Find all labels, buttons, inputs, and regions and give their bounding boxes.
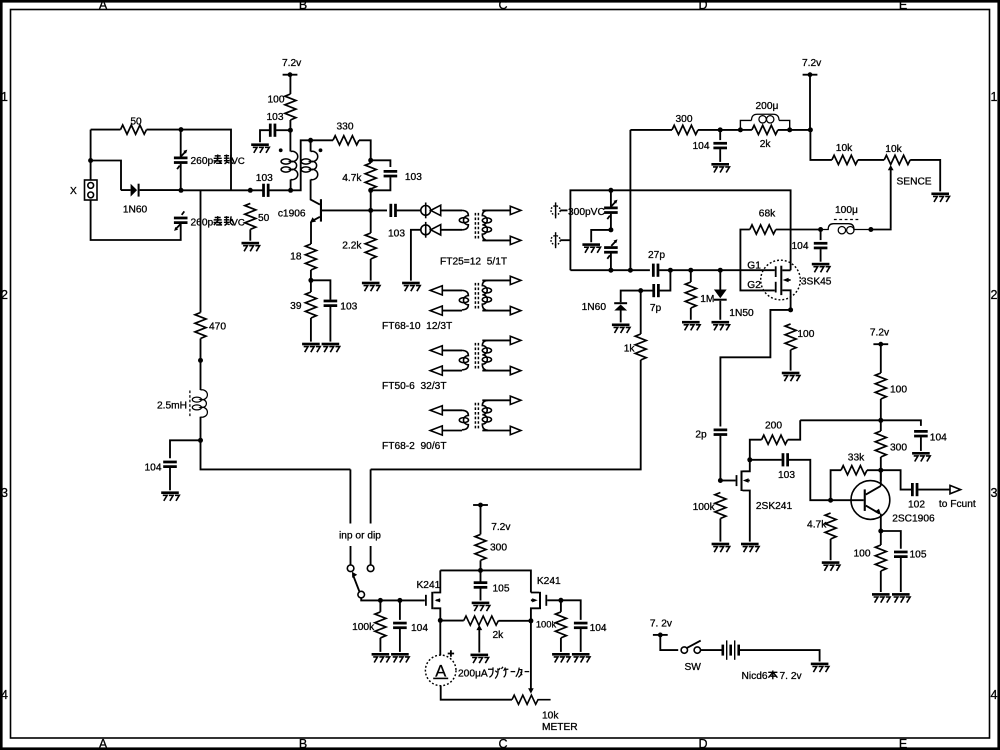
svg-text:3SK45: 3SK45 — [801, 276, 832, 287]
node rail-VC1 dot — [179, 127, 184, 132]
wire J2 to vertical — [560, 239, 570, 241]
wire battery to ground — [740, 650, 820, 661]
node dot above coil — [198, 358, 203, 363]
wire cap 103 to ground left — [260, 130, 269, 142]
wire 7p right up — [660, 270, 671, 290]
wire 7p node to diode — [621, 291, 641, 303]
wire R50 to ground — [249, 229, 251, 240]
output arrow T3 right bottom — [510, 366, 521, 374]
ground battery — [811, 663, 829, 673]
switch SW arm — [687, 641, 701, 648]
input arrow T3 top — [430, 346, 442, 355]
wire 103 em to ground — [329, 307, 331, 342]
ground under 103 emitter — [322, 343, 340, 353]
output arrow to Fcunt — [950, 485, 961, 493]
connector J1 input — [551, 202, 560, 218]
svg-text:104: 104 — [930, 433, 947, 444]
svg-text:E: E — [899, 737, 907, 750]
ground under 105 emitter — [892, 593, 910, 603]
svg-text:c1906: c1906 — [278, 209, 306, 220]
svg-text:100: 100 — [890, 385, 907, 396]
wire 104b to ground — [820, 249, 822, 262]
wire 105 to ground — [900, 558, 902, 592]
svg-text:300pVC: 300pVC — [568, 207, 605, 218]
wire source to 2p — [720, 310, 790, 427]
wire T4 right bottom lead — [482, 430, 510, 432]
ground under 39 — [302, 343, 320, 353]
node R50-2 tap dot — [248, 188, 253, 193]
wire T3 right bottom lead — [482, 370, 510, 372]
wire 300m to rail — [480, 560, 482, 570]
svg-text:18: 18 — [290, 252, 302, 263]
output arrow T1 bottom — [510, 236, 521, 244]
wire y130 to R300 — [630, 129, 672, 131]
wire VC4 stem bottom — [610, 253, 612, 270]
svg-text:330: 330 — [337, 121, 354, 132]
svg-text:105: 105 — [910, 549, 927, 560]
wire 104c to ground — [399, 629, 401, 652]
wire top rail right — [147, 130, 232, 191]
wire VC3 stem bottom — [610, 214, 612, 230]
crystal X — [85, 180, 98, 200]
svg-text:100k: 100k — [536, 619, 557, 630]
ground under 105 meter — [472, 602, 490, 612]
resistor R 10k first — [832, 155, 858, 164]
ground under 104 amp — [912, 452, 930, 462]
svg-text:4: 4 — [991, 688, 998, 702]
label kanji sadou VC1 — [214, 155, 234, 164]
node amp rail dot — [878, 418, 883, 423]
wire 39 to ground — [310, 318, 312, 342]
node 104c dot — [397, 598, 402, 603]
wire switch to gate line — [361, 598, 425, 601]
switch S1 pole A — [347, 565, 354, 572]
wire T0 secondary top stem — [310, 140, 312, 151]
resistor R 50 top — [121, 125, 147, 134]
svg-text:2k: 2k — [760, 139, 772, 150]
wire T2 right bottom lead — [482, 310, 510, 312]
svg-text:50: 50 — [258, 213, 270, 224]
svg-text:200μA: 200μA — [458, 668, 488, 679]
svg-text:102: 102 — [908, 500, 925, 511]
supply 7.2v top-middle — [282, 58, 302, 77]
node 104b top dot — [818, 227, 823, 232]
transformer T0 phase dot right — [319, 148, 323, 152]
resistor R 4.7k amp — [825, 513, 836, 539]
wire 104 amp to ground — [920, 437, 922, 451]
switch S1 arm — [352, 572, 359, 592]
svg-text:2.2k: 2.2k — [342, 240, 362, 251]
wire T1 sec bottom lead — [482, 239, 510, 241]
wire 104 stem — [719, 130, 721, 140]
svg-text:27p: 27p — [648, 250, 665, 261]
potentiometer R 10k SENCE — [884, 155, 910, 164]
node crystal tap dot — [88, 158, 93, 163]
ground under 104 drain — [812, 263, 830, 273]
svg-text:3: 3 — [991, 486, 998, 500]
capacitor C 103 coupling osc — [262, 184, 269, 197]
ground under 100 emitter — [872, 593, 890, 603]
capacitor C 103 diode coupling — [389, 204, 396, 217]
wire 470 to coil — [200, 339, 202, 391]
svg-text:260p: 260p — [191, 156, 214, 167]
FET U 3SK45 — [761, 260, 801, 310]
wire 100b to rail — [880, 399, 882, 431]
resistor R 1M — [685, 282, 696, 308]
diode 1N60 — [121, 184, 181, 197]
svg-text:39: 39 — [290, 301, 302, 312]
svg-text:300: 300 — [490, 543, 507, 554]
wire T4 left bottom lead — [442, 430, 462, 432]
ground 300pVC mid — [582, 243, 600, 253]
svg-text:A: A — [435, 662, 446, 680]
connector J2 input — [551, 232, 560, 248]
ground under 1N50 — [712, 321, 730, 331]
svg-text:7.2v: 7.2v — [282, 58, 302, 69]
switch S1 common — [358, 591, 365, 598]
wire 100 to ground — [790, 350, 792, 371]
svg-text:SENCE: SENCE — [897, 176, 932, 187]
wire sw to battery — [701, 649, 722, 651]
wire 104d to ground — [580, 629, 582, 652]
capacitor C 104 left — [163, 461, 177, 468]
wire emitter to 105 — [881, 531, 901, 549]
output arrow T1 top — [510, 206, 521, 214]
svg-text:100: 100 — [854, 548, 871, 559]
wire 68k right to drain line — [776, 229, 821, 231]
diode pair D1 circle-diode — [421, 203, 441, 219]
wire 1M top stub — [690, 270, 692, 282]
svg-text:103: 103 — [340, 301, 357, 312]
node K241b source dot — [528, 618, 533, 623]
wire T0 primary bottom — [290, 180, 292, 191]
ground under 103 bypass — [251, 143, 269, 153]
svg-text:68k: 68k — [759, 208, 776, 219]
wire 1M to ground — [690, 308, 692, 320]
ground under 100 3SK45 — [782, 372, 800, 382]
svg-text:1N60: 1N60 — [123, 204, 148, 215]
svg-text:7.2v: 7.2v — [491, 522, 511, 533]
svg-text:FT68-2 90/6T: FT68-2 90/6T — [382, 441, 447, 452]
capacitor C 103 interstage — [782, 453, 789, 466]
label kanji hon — [768, 671, 777, 680]
svg-text:1k: 1k — [624, 344, 636, 355]
transformer T1 core — [474, 213, 476, 240]
battery BT Nicd — [722, 640, 741, 659]
svg-text:104: 104 — [411, 623, 428, 634]
node emitter chain dot — [308, 278, 313, 283]
ground under 1M — [682, 321, 700, 331]
transformer T3 core — [474, 343, 476, 370]
potentiometer wiper SENCE — [888, 165, 894, 229]
svg-text:FT50-6 32/3T: FT50-6 32/3T — [382, 381, 447, 392]
supply 7.2v meter — [473, 503, 511, 533]
supply 7.2v top-right — [802, 58, 822, 77]
wire x570 vertical — [570, 190, 790, 270]
svg-text:1M: 1M — [700, 294, 714, 305]
wire T3 left top lead — [442, 349, 462, 351]
svg-text:C: C — [498, 0, 507, 12]
wire 100k1 to ground — [379, 600, 381, 652]
wire drain rail meter — [440, 570, 531, 592]
wire T2 right top lead — [482, 279, 510, 281]
resistor R 100k gate — [715, 493, 726, 519]
node Lpar right dot — [787, 127, 792, 132]
svg-text:FT68-10 12/3T: FT68-10 12/3T — [382, 321, 452, 332]
resistor R 200 — [762, 435, 788, 444]
svg-text:K241: K241 — [537, 576, 561, 587]
svg-text:100: 100 — [797, 329, 814, 340]
capacitor C 104 drain — [814, 242, 828, 249]
wire J1 stub — [560, 209, 567, 211]
wire to 10k — [810, 130, 832, 160]
resistor R 33k — [841, 466, 867, 475]
resistor R 2k parallel — [752, 125, 778, 134]
wire vc mid to ground — [591, 230, 611, 242]
svg-text:50: 50 — [130, 116, 142, 127]
resistor R 300 meter — [475, 534, 486, 560]
wire T2 left top lead — [442, 289, 462, 291]
ground under 2k wiper — [471, 654, 489, 664]
node 100u right dot — [868, 227, 873, 232]
resistor R 39 — [305, 292, 316, 318]
node T0 secondary top dot — [308, 138, 313, 143]
input arrow T4 top — [430, 406, 442, 415]
svg-text:B: B — [299, 0, 307, 12]
wire node to cap 103 em — [311, 280, 331, 300]
variable capacitor VC3 300p upper — [604, 200, 618, 220]
wire 103 parallel top — [371, 160, 391, 167]
wire 103c to base — [789, 460, 829, 500]
capacitor C 103 parallel — [384, 170, 398, 177]
svg-text:105: 105 — [493, 583, 510, 594]
wire T4 right top lead — [482, 399, 510, 401]
node emitter dot amp — [878, 529, 883, 534]
input arrow T4 bottom — [430, 426, 442, 435]
node Lpar left dot — [738, 127, 743, 132]
input arrow T3 bottom — [430, 366, 442, 375]
node 2SK241 gate dot — [718, 478, 723, 483]
wire 4.7k amp to ground — [830, 539, 832, 560]
capacitor C 104 meter left — [393, 622, 407, 629]
svg-text:D: D — [698, 737, 707, 750]
resistor R 68k — [750, 225, 776, 234]
wire gate2 to 104d — [561, 600, 581, 620]
wire 2.2k to ground — [370, 259, 372, 281]
wire source to 2k — [440, 620, 463, 622]
svg-text:4.7k: 4.7k — [807, 520, 827, 531]
wire crystal bottom rail — [91, 200, 181, 240]
wire 330 to 4.7k — [359, 140, 371, 163]
potentiometer wiper 2k — [476, 625, 482, 653]
supply 7.2v amp — [870, 327, 890, 346]
wire switch stub left bottom — [350, 546, 352, 565]
capacitor C 104 meter right — [574, 622, 588, 629]
svg-text:104: 104 — [145, 463, 162, 474]
node rail 105 dot — [478, 568, 483, 573]
wire meter wiper — [530, 621, 532, 689]
svg-text:G1: G1 — [747, 260, 761, 271]
wire 104b stem — [820, 230, 822, 241]
capacitor C 7p — [652, 284, 659, 297]
svg-text:2.5mH: 2.5mH — [157, 400, 187, 411]
wire 200 to rail — [788, 420, 801, 439]
wire between 10ks — [858, 159, 884, 161]
wire amp rail — [800, 420, 921, 426]
svg-text:Nicd6: Nicd6 — [742, 671, 768, 682]
capacitor C 2p — [714, 429, 728, 436]
svg-text:D: D — [698, 0, 707, 12]
node y270 x630 dot — [628, 268, 633, 273]
ground under 100k meter left — [372, 653, 390, 663]
svg-text:10k: 10k — [836, 143, 853, 154]
wire 4.7k to base node — [370, 190, 372, 233]
node 100k1 dot — [378, 598, 383, 603]
wire top rail left — [91, 129, 121, 131]
wire supply to 300m — [480, 505, 482, 534]
ground 2SK241 source — [741, 543, 759, 553]
svg-text:7. 2v: 7. 2v — [780, 671, 803, 682]
wire VC node branch down — [200, 190, 202, 312]
node vc3 top dot — [608, 188, 613, 193]
wire 300 to collector node — [880, 457, 882, 481]
wire collector to 102 — [881, 470, 911, 489]
wire supply to R100 — [289, 75, 291, 94]
svg-text:E: E — [899, 0, 907, 12]
wire cap to diode pair1 — [397, 209, 421, 211]
resistor R 330 — [333, 136, 359, 145]
wire x630 vertical — [629, 130, 631, 270]
input arrow T2 top — [430, 286, 442, 295]
resistor R 2.2k — [365, 233, 376, 259]
svg-text:100k: 100k — [352, 622, 375, 633]
capacitor C 104 top — [713, 142, 727, 149]
wire node to cap 103 bypass — [276, 129, 290, 131]
node 1M top dot — [688, 268, 693, 273]
wire T3 left bottom lead — [442, 370, 462, 372]
wire meter bottom — [441, 686, 512, 700]
wire pot right to ground — [910, 160, 940, 192]
resistor R 100k meter left — [375, 612, 386, 638]
wire gate stub — [720, 480, 735, 482]
inductor L 200u — [740, 114, 789, 130]
switch S1 pole B — [367, 565, 374, 572]
wire battery supply down — [660, 635, 678, 650]
node 2SK241 drain dot — [747, 457, 752, 462]
input arrow T2 bottom — [430, 306, 442, 315]
node VC junction dot — [179, 188, 184, 193]
resistor R 100k meter right — [555, 612, 566, 638]
svg-text:100: 100 — [268, 95, 285, 106]
FET Q K241 first — [425, 570, 440, 620]
output arrow T4 right bottom — [510, 426, 521, 434]
svg-text:100μ: 100μ — [835, 205, 858, 216]
transformer T0 phase dot left — [279, 148, 283, 152]
wire 1k top — [640, 291, 642, 334]
transistor Q 2SC1906 — [851, 470, 890, 531]
wire 33k branch — [831, 470, 881, 500]
wire VC1 stem top — [180, 130, 182, 157]
svg-text:103: 103 — [267, 112, 284, 123]
output arrow T4 right top — [510, 396, 521, 404]
node osc collector supply dot — [288, 128, 293, 133]
wire 27p right — [659, 269, 775, 271]
wire supply to 100b — [880, 344, 882, 373]
FET Q 2SK241 — [736, 460, 750, 542]
svg-text:2: 2 — [1, 288, 8, 302]
wire T1 sec top lead — [482, 209, 510, 211]
transformer T2 core — [474, 283, 476, 310]
node 27p out dot — [668, 268, 673, 273]
wire crystal top to rail — [90, 130, 92, 180]
output arrow T3 right top — [510, 336, 521, 344]
wire 100em to ground — [880, 531, 882, 592]
wire T4 left top lead — [442, 409, 462, 411]
transformer T3 left coil — [459, 350, 468, 370]
wire switch stub right bottom — [370, 546, 372, 565]
ground under R50 — [242, 242, 260, 252]
wire drain to 200 — [750, 440, 762, 460]
transformer T2 left coil — [459, 290, 468, 310]
svg-text:1: 1 — [1, 90, 8, 104]
transformer T1 right coil — [482, 210, 491, 240]
svg-text:1N60: 1N60 — [582, 302, 607, 313]
svg-text:33k: 33k — [848, 453, 865, 464]
transformer T0 primary coil — [281, 151, 298, 179]
svg-text:VC: VC — [232, 218, 245, 229]
variable capacitor VC4 300p lower — [604, 239, 618, 259]
ground under 104 meter left — [391, 653, 409, 663]
resistor R 4.7k osc — [365, 163, 376, 189]
svg-text:4: 4 — [1, 688, 8, 702]
wire T0 feedback — [268, 140, 310, 190]
wire cap 104 to ground — [169, 468, 171, 491]
resistor R 470 — [195, 313, 206, 339]
wire 100k to ground — [719, 519, 721, 542]
transistor Q c1906 — [310, 180, 322, 245]
wire 2p to gate — [719, 436, 721, 481]
svg-text:1: 1 — [991, 90, 998, 104]
svg-text:200μ: 200μ — [756, 101, 779, 112]
resistor R 100 emitter — [875, 545, 886, 571]
wire 100k2 to ground — [560, 600, 562, 652]
svg-text:inp or dip: inp or dip — [339, 531, 381, 542]
transformer T3 right coil — [482, 340, 491, 370]
wire coil to node — [201, 417, 351, 470]
ground under 2.2k — [362, 282, 380, 292]
node 1N50 top dot — [718, 268, 723, 273]
wire 105 to ground — [480, 589, 482, 601]
transformer T4 right coil — [482, 400, 491, 430]
svg-text:A: A — [99, 0, 108, 12]
wire crystal tap to diode branch — [91, 161, 121, 191]
capacitor C 105 emitter — [894, 551, 908, 558]
ground under 104 top — [711, 163, 729, 173]
svg-text:10k: 10k — [885, 144, 902, 155]
ground under 100k meter right — [552, 653, 570, 663]
capacitor C 103 emitter — [324, 300, 338, 307]
node base dot — [368, 208, 373, 213]
svg-text:3: 3 — [1, 486, 8, 500]
wiper arrow 10k meter — [528, 688, 534, 693]
svg-text:103: 103 — [388, 229, 405, 240]
svg-text:104: 104 — [693, 141, 710, 152]
wire 1k bottom long — [371, 360, 641, 469]
inductor L 100u choke — [821, 220, 871, 234]
wire 104 to ground — [719, 149, 721, 162]
wire 18-39 node — [310, 270, 312, 292]
svg-text:7.2v: 7.2v — [870, 327, 890, 338]
